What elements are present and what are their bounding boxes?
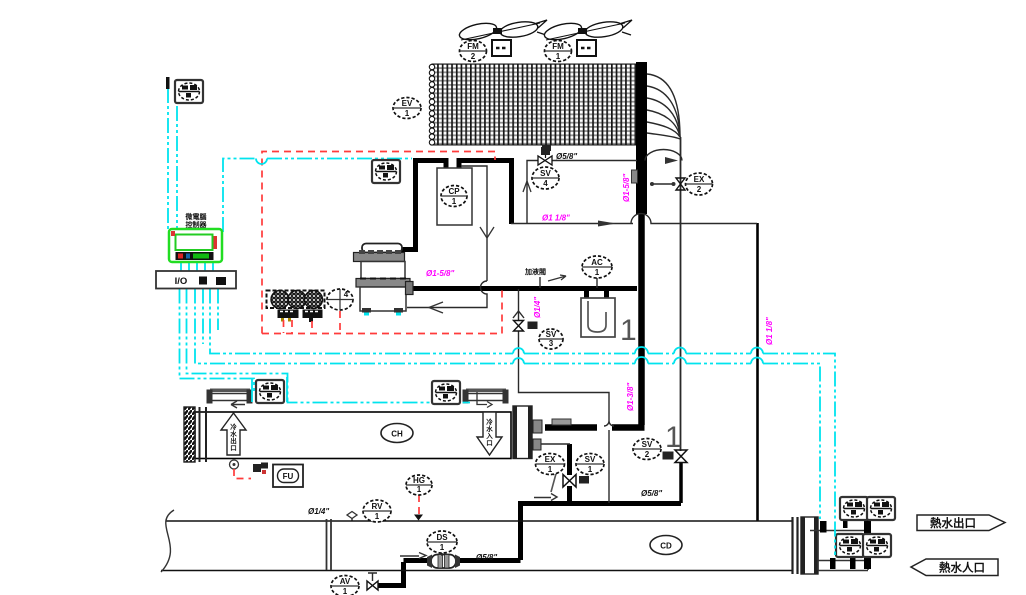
svg-text:SV: SV [546, 330, 557, 339]
svg-text:3: 3 [549, 339, 554, 348]
svg-text:Ø5/8": Ø5/8" [556, 152, 577, 161]
svg-text:控制器: 控制器 [186, 220, 208, 229]
svg-text:FM: FM [467, 42, 479, 51]
svg-text:SV: SV [642, 440, 653, 449]
svg-text:1: 1 [620, 314, 637, 347]
svg-text:2: 2 [645, 450, 650, 459]
svg-text:2: 2 [697, 185, 702, 194]
svg-text:水: 水 [486, 424, 493, 433]
svg-text:AC: AC [591, 258, 603, 267]
svg-text:Ø1-3/8": Ø1-3/8" [626, 383, 635, 411]
svg-text:Ø1-5/8": Ø1-5/8" [426, 269, 454, 278]
svg-text:1: 1 [548, 465, 553, 474]
svg-text:熱水人口: 熱水人口 [939, 561, 985, 575]
svg-text:口: 口 [486, 439, 493, 447]
svg-text:1: 1 [588, 465, 593, 474]
svg-text:Ø1-5/8": Ø1-5/8" [622, 174, 631, 202]
svg-text:DS: DS [436, 533, 448, 542]
svg-text:RV: RV [372, 502, 384, 511]
svg-text:Ø5/8": Ø5/8" [641, 489, 662, 498]
svg-text:Ø1/4": Ø1/4" [533, 297, 542, 318]
svg-text:AV: AV [340, 577, 351, 586]
svg-text:Ø1 1/8": Ø1 1/8" [542, 214, 570, 223]
svg-text:口: 口 [230, 444, 237, 452]
svg-text:1: 1 [665, 421, 682, 454]
svg-text:SV: SV [585, 455, 596, 464]
svg-text:1: 1 [595, 268, 600, 277]
svg-text:I/O: I/O [175, 276, 188, 287]
svg-text:入: 入 [485, 432, 493, 440]
svg-text:1: 1 [556, 52, 561, 61]
svg-text:水: 水 [230, 429, 237, 438]
svg-text:EX: EX [545, 455, 556, 464]
svg-text:EV: EV [402, 99, 413, 108]
svg-text:HG: HG [413, 476, 425, 485]
svg-text:1: 1 [417, 485, 422, 494]
svg-text:1: 1 [375, 512, 380, 521]
svg-text:1: 1 [343, 587, 348, 595]
svg-text:冷: 冷 [486, 417, 493, 426]
svg-text:CP: CP [448, 187, 460, 196]
svg-text:出: 出 [230, 436, 237, 445]
svg-text:冷: 冷 [230, 422, 237, 431]
svg-text:1: 1 [440, 543, 445, 552]
svg-text:熱水出口: 熱水出口 [930, 516, 976, 530]
svg-text:4: 4 [543, 179, 548, 188]
svg-text:微電腦: 微電腦 [185, 212, 207, 221]
svg-text:1: 1 [452, 197, 457, 206]
svg-text:FM: FM [552, 42, 564, 51]
svg-text:Ø5/8": Ø5/8" [476, 553, 497, 562]
svg-text:1: 1 [405, 109, 410, 118]
svg-text:FU: FU [283, 472, 294, 481]
svg-text:SV: SV [540, 169, 551, 178]
svg-text:Ø1/4": Ø1/4" [308, 507, 329, 516]
svg-text:加液閥: 加液閥 [524, 267, 546, 276]
svg-text:Ø1 1/8": Ø1 1/8" [765, 317, 774, 345]
svg-text:2: 2 [471, 52, 476, 61]
svg-text:CD: CD [660, 542, 672, 551]
svg-text:EX: EX [694, 175, 705, 184]
svg-text:4: 4 [344, 290, 349, 299]
svg-text:CH: CH [391, 430, 403, 439]
